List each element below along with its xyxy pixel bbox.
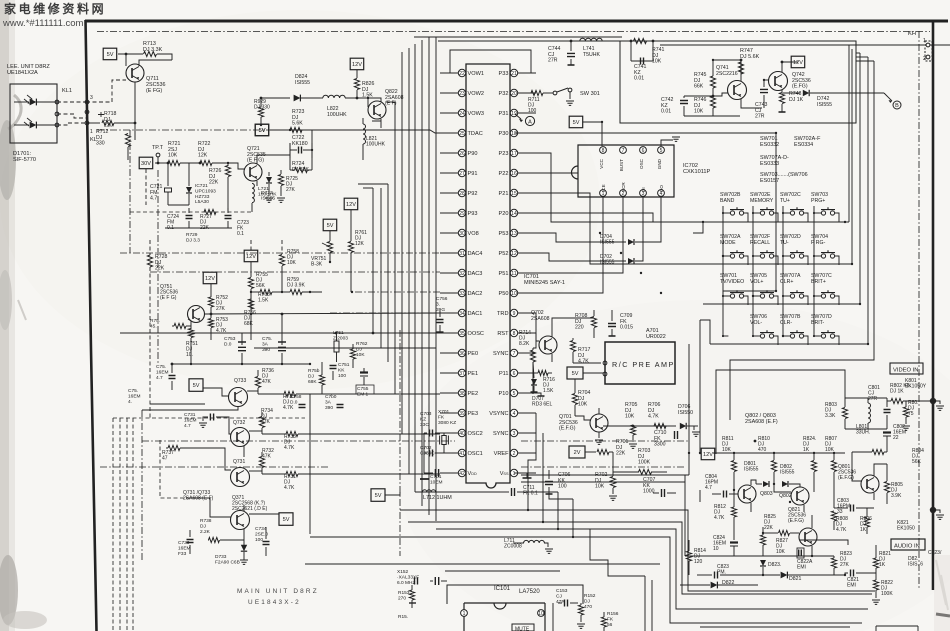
svg-text:TDAC: TDAC [468,131,483,137]
transistor Q802b [791,487,809,505]
svg-text:OSC2: OSC2 [468,431,483,437]
svg-text:29: 29 [459,211,465,217]
LED D1701a [30,99,37,106]
pin 7 SYNC [510,349,517,356]
wire Q711 base [86,80,126,102]
svg-text:P51: P51 [499,271,509,277]
wire 12v rail [713,452,845,454]
svg-text:20: 20 [511,91,517,97]
svg-text:VCC: VCC [599,158,604,168]
svg-text:P52: P52 [499,251,509,257]
svg-text:OSC: OSC [639,158,644,169]
svg-text:R/C PRE AMP: R/C PRE AMP [612,360,675,369]
5V box 2 [255,124,269,136]
svg-text:34: 34 [459,311,465,317]
op-amp U1 IC701 body [466,64,510,488]
node A arrow [515,114,521,119]
svg-text:www.*#111111.com: www.*#111111.com [2,18,84,29]
svg-text:VIDEO IN: VIDEO IN [893,368,918,374]
audio bottom rail [800,540,848,545]
op-amp U2 IC702 body [572,145,675,197]
svg-text:D823.: D823. [768,562,781,568]
IC702 gnd [661,140,673,146]
svg-text:30: 30 [459,231,465,237]
IC702 pin 7 top [620,147,627,154]
svg-text:42: 42 [459,471,465,477]
inductor L712 [422,490,435,492]
pin 31 DAC4 [458,249,465,256]
diode D723 [266,177,272,183]
pin 37 PE1 [458,369,465,376]
switch SW301 [543,92,553,94]
svg-text:2V: 2V [574,450,581,456]
svg-text:19: 19 [511,111,517,117]
svg-text:P11: P11 [499,371,509,377]
svg-text:21: 21 [511,71,517,77]
svg-text:TP.T: TP.T [152,145,164,151]
wire video top [845,397,887,399]
pin 10 P50 [510,289,517,296]
svg-text:DAC2: DAC2 [468,291,483,297]
svg-text:R15.: R15. [398,614,408,620]
pin 20 P32 [510,89,517,96]
horizontal dashdot y313 [330,312,455,314]
svg-text:36: 36 [459,351,465,357]
long line y348 [254,347,436,349]
pin 36 PE0 [458,349,465,356]
svg-text:12: 12 [511,251,517,257]
pin 28 P92 [458,189,465,196]
matrix row line 2 [693,263,852,265]
IC702 pin 6 top [640,147,647,154]
svg-text:PE3: PE3 [468,411,479,417]
wire VOW1 top loop [450,50,531,73]
MUTE box [512,624,534,631]
12V box top [350,58,364,69]
svg-text:33: 33 [459,291,465,297]
resistor R754h [174,323,186,328]
svg-text:PE1: PE1 [468,371,479,377]
svg-text:1: 1 [90,129,93,135]
frame top border [85,20,948,23]
svg-text:5: 5 [660,148,663,154]
svg-text:P10: P10 [499,391,509,397]
IC702 pin 4 bottom [658,190,665,197]
svg-text:BUST: BUST [619,159,624,171]
LED D1701b [30,122,37,129]
svg-text:VREF: VREF [494,451,510,457]
pin 3 SYNC [510,429,517,436]
capacitor C801 [884,410,891,413]
5V box p30 [569,116,583,128]
pin 22 VOW1 [458,69,465,76]
svg-text:12V: 12V [793,60,803,66]
5V box 734 [279,513,293,526]
wire q741 c [741,99,762,108]
LED wires to frame [57,101,86,103]
svg-text:17: 17 [511,151,517,157]
wire P20 to row1 [536,213,653,222]
AUDIO IN box [891,539,925,550]
svg-text:P53: P53 [499,231,509,237]
svg-text:30V: 30V [141,161,151,167]
pin 32 DAC3 [458,269,465,276]
svg-text:6: 6 [642,148,645,154]
5V box vr [323,219,337,231]
svg-text:7: 7 [622,148,625,154]
30V box [139,157,153,169]
wire RST [533,333,536,348]
svg-text:IC101: IC101 [494,586,511,592]
left cluster verticals [684,475,686,556]
bus bend up x310 [309,394,311,534]
dash-dot rail y130 [97,129,310,131]
svg-text:41: 41 [459,451,465,457]
svg-text:6: 6 [513,371,516,377]
X152 sym [415,578,418,585]
transistor Q821 [799,528,817,546]
svg-text:OOSC: OOSC [468,331,484,337]
svg-text:14: 14 [511,211,517,217]
svg-text:P91: P91 [468,171,478,177]
transistor Q751 [188,306,205,323]
svg-text:Q732: Q732 [233,420,245,426]
right pin stubs [518,73,536,473]
svg-text:Q802 / Q8032SA608 (E.F): Q802 / Q8032SA608 (E.F) [745,413,778,425]
svg-text:3: 3 [90,95,93,101]
svg-text:5V: 5V [107,52,114,58]
svg-text:DO: DO [659,185,664,192]
svg-text:P50: P50 [499,291,509,297]
12V box osc [791,56,805,67]
matrix col verticals down [688,344,690,475]
wire P21 to row2 [536,193,693,264]
IC702 pin 3 bottom [640,190,647,197]
svg-text:Q733: Q733 [234,378,246,384]
crystal X701 [442,436,446,445]
wire Q733 emitter down [142,407,238,410]
dashdot vertical x400 [399,330,401,556]
svg-text:VOW1: VOW1 [468,71,484,77]
left vertical bus bundle [372,188,374,333]
svg-text:Q803: Q803 [760,491,773,497]
wire kh y45 [660,44,924,46]
svg-text:5V: 5V [283,517,290,523]
svg-text:15: 15 [511,191,517,197]
svg-text:P22: P22 [499,171,509,177]
pin 19 P31 [510,109,517,116]
pin 2 VREF [510,449,517,456]
pin 29 P93 [458,209,465,216]
IC702 pin 2 bottom [620,190,627,197]
left bus feed jogs [363,187,373,189]
svg-text:13: 13 [511,231,517,237]
svg-text:OSC1: OSC1 [468,451,483,457]
svg-text:12V: 12V [352,62,362,68]
svg-text:23: 23 [459,91,465,97]
wire y290 dash [149,290,151,420]
svg-text:24: 24 [459,111,465,117]
transistor Q701 [590,414,608,432]
svg-text:DAC4: DAC4 [468,251,483,257]
12V box mid [203,272,217,284]
dashdot x142 [141,410,143,560]
inductor L801 [868,403,871,423]
svg-text:PE2: PE2 [468,391,479,397]
video feed horizontals [521,474,689,476]
svg-text:SCR: SCR [621,182,626,192]
svg-text:10: 10 [538,611,544,617]
svg-text:P90: P90 [468,151,478,157]
wire P23 down [536,153,703,222]
svg-text:KL1: KL1 [62,88,72,94]
IC101 pin 1 [461,610,468,617]
svg-text:1: 1 [513,471,516,477]
svg-text:1: 1 [463,611,466,617]
top bus line y37 [414,36,622,38]
box R/C PRE AMP [605,342,675,384]
bottom bus horizontals [415,491,500,493]
5V box 733 [189,379,203,392]
svg-text:B: B [895,103,899,109]
long line y364 [172,363,310,365]
pin 12 P52 [510,249,517,256]
svg-text:11: 11 [511,271,516,277]
svg-text:5: 5 [513,391,516,397]
12V box r756 [344,198,358,210]
transistor Q733 [229,388,248,407]
oscillator enclosure box [620,41,856,123]
svg-text:22: 22 [459,71,465,77]
IC101 pin 10 [538,610,545,617]
5V box preamp [567,367,583,379]
svg-text:27: 27 [459,171,465,177]
svg-text:P92: P92 [468,191,478,197]
svg-text:3: 3 [513,431,516,437]
horizontal dashdot y292 [355,291,440,293]
svg-text:LA7520: LA7520 [519,589,540,595]
wire P50 to IC702 [536,197,603,293]
pin 34 DAC1 [458,309,465,316]
pin 16 P22 [510,169,517,176]
svg-text:9: 9 [513,311,516,317]
pin 23 VOW2 [458,89,465,96]
transistor Q734 bottom [231,511,250,530]
frame left border [86,20,97,631]
pin 4 VSYNC [510,409,517,416]
svg-text:VOW2: VOW2 [468,91,484,97]
transistor Q702 [539,336,557,354]
svg-text:39: 39 [459,411,465,417]
horizontal dashdot y272 [150,271,440,273]
pin 13 P53 [510,229,517,236]
svg-text:5V: 5V [327,223,334,229]
svg-text:25: 25 [459,131,465,137]
pin 25 TDAC [458,129,465,136]
svg-text:SYNC: SYNC [493,351,509,357]
svg-text:40: 40 [459,431,465,437]
dash rail y212 [130,211,252,213]
svg-text:P93: P93 [468,211,478,217]
svg-text:KH: KH [908,31,916,37]
svg-text:Q802: Q802 [779,493,792,499]
svg-text:16: 16 [511,171,517,177]
svg-text:5V: 5V [573,120,580,126]
svg-text:P30: P30 [499,131,509,137]
transistor Q801 [861,475,879,493]
2V box [569,446,585,458]
pin 40 OSC2 [458,429,465,436]
pin 30 VO8 [458,229,465,236]
svg-text:5V: 5V [375,493,382,499]
svg-text:Q731: Q731 [233,459,245,465]
svg-text:D821: D821 [789,576,802,582]
svg-text:12V: 12V [703,452,713,458]
svg-text:VO8: VO8 [468,231,479,237]
ground rail under C721 [168,204,189,206]
svg-text:12V: 12V [246,254,256,260]
svg-text:12V: 12V [205,276,215,282]
svg-text:MAIN UNIT D8RZ: MAIN UNIT D8RZ [237,588,319,595]
transistor Q732 [231,428,250,447]
LED unit box [10,84,57,143]
wires osc pins [452,432,458,434]
matrix row left feeds [693,222,703,233]
inner dash-dot margin line [97,31,930,33]
svg-text:UE1843X-2: UE1843X-2 [248,599,301,606]
wire to TDAC pin [345,130,440,133]
svg-text:C823/: C823/ [928,550,942,556]
pin 24 VOW3 [458,109,465,116]
matrix row line 4 [710,343,868,345]
transistor Q803 [738,485,756,503]
svg-text:PE0: PE0 [468,351,479,357]
resistor R725 [278,175,283,186]
svg-text:5V: 5V [572,371,579,377]
switch right stubs to row lines [746,213,748,222]
transistor Q731 [231,468,250,487]
pin 42 VDD [458,469,465,476]
pin 8 RST [510,329,517,336]
resistor R713 [118,53,143,55]
svg-text:ICE: ICE [601,184,606,192]
video top feeds [840,370,845,398]
junction dots sprinkle [356,97,358,99]
left mid horizontals [150,403,205,405]
switch matrix column verticals [722,206,724,336]
svg-text:SYNC: SYNC [493,431,509,437]
connector dot audio [930,507,936,513]
transistor Q711 [126,64,144,82]
svg-text:VOW3: VOW3 [468,111,484,117]
pin 39 PE3 [458,409,465,416]
pin 35 OOSC [458,329,465,336]
svg-text:DI: DI [641,187,646,192]
pin 9 TRD [510,309,517,316]
svg-text:DAC3: DAC3 [468,271,483,277]
pin 17 P23 [510,149,517,156]
matrix row line 1 [703,221,849,223]
svg-text:8: 8 [602,148,605,154]
svg-text:7: 7 [513,351,516,357]
wire 30V rail down [145,169,147,205]
svg-text:SW 301: SW 301 [580,91,600,97]
transistor Q822 [368,101,386,119]
svg-text:P20: P20 [499,211,509,217]
svg-text:37: 37 [459,371,465,377]
VIDEO IN box [890,363,923,374]
zener D721 [188,163,190,186]
matrix row line 3 [703,303,860,305]
svg-text:35: 35 [459,331,465,337]
capacitor C703 [430,430,433,437]
pin 38 PE2 [458,389,465,396]
svg-text:P31: P31 [499,111,509,117]
wire P22 [536,172,578,174]
wire P51 to IC702 [536,197,623,273]
svg-text:AUDIO IN: AUDIO IN [894,544,920,550]
horizontal line y333 [120,332,440,334]
svg-text:31: 31 [459,251,465,257]
connector pins on frame [85,100,89,104]
scan edge band [0,0,13,631]
left long dash vertical x130 upper [129,130,131,253]
svg-text:26: 26 [459,151,465,157]
pin 1 VSS [510,469,517,476]
svg-text:SW702EMEMORY: SW702EMEMORY [750,192,774,204]
inductor L721b [252,183,254,202]
5V box staircase [371,489,385,502]
left pin stubs [440,73,458,473]
wire R711 P32 [518,92,530,94]
pin 11 P51 [510,269,517,276]
svg-text:8: 8 [513,331,516,337]
svg-text:C755EM 1: C755EM 1 [357,386,369,397]
pin 18 P30 [510,129,517,136]
right vertical bus [848,45,850,222]
left vertical x158 [157,170,159,364]
svg-text:SW701ES0332: SW701ES0332 [760,136,779,148]
pin 14 P20 [510,209,517,216]
frame bottom-right corner piece [936,614,950,616]
svg-text:DAC1: DAC1 [468,311,483,317]
IC702 pin 8 top [600,147,607,154]
svg-text:家电维修资料网: 家电维修资料网 [4,1,106,16]
transistor Q721 [244,163,262,181]
transistor Q741 [728,81,747,100]
IC702 pin 5 top [658,147,665,154]
wire P30 long [515,133,776,291]
IC101 outline [447,585,583,604]
pin 27 P91 [458,169,465,176]
svg-text:P32: P32 [499,91,509,97]
pin 21 P33 [510,69,517,76]
wire node [134,96,136,140]
pin 15 P21 [510,189,517,196]
wire q821 emitter rail [685,555,834,557]
svg-text:10: 10 [511,291,517,297]
IC702 pin 1 bottom [600,190,607,197]
svg-text:32: 32 [459,271,465,277]
svg-text:L712 1UHM: L712 1UHM [423,495,452,501]
svg-text:P23: P23 [499,151,509,157]
staircase verticals from IC [528,413,536,510]
pin 6 P11 [510,369,517,376]
left dash verticals bottom [112,418,114,631]
connector dot video [930,398,936,404]
svg-text:VSYNC: VSYNC [489,411,508,417]
transistor Q742 [769,72,788,91]
